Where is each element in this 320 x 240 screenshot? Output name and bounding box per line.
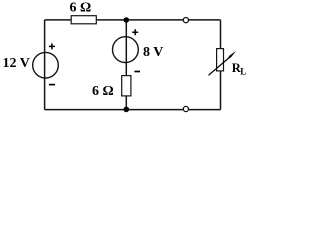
svg-text:6 Ω: 6 Ω [92,84,114,99]
voltage source V1 12V circle [33,52,59,78]
V2 plus polarity mark [132,29,138,35]
wire: middle branch vertical [125,20,127,110]
V1 minus polarity mark [49,84,55,86]
wire: right branch vertical [220,20,222,110]
RL variable arrow head [226,51,236,60]
voltage source V2 8V circle [113,37,139,63]
node junction dot bottom [124,107,130,113]
wire: bottom rail [45,109,221,111]
terminal a open circle top [183,18,188,23]
resistor R2 6ohm middle body [122,76,131,96]
svg-text:L: L [240,66,246,76]
V2 minus polarity mark [134,71,140,73]
resistor R1 6ohm top body [71,16,96,24]
svg-text:12 V: 12 V [3,56,30,71]
wire: left branch vertical [44,20,46,110]
svg-text:6 Ω: 6 Ω [70,0,92,15]
node junction dot top [124,17,130,23]
V1 plus polarity mark [49,43,55,49]
terminal b open circle bottom [183,106,188,111]
svg-text:8 V: 8 V [143,45,163,60]
wire: top rail [45,19,221,21]
RL variable arrow shaft [209,58,229,75]
resistor RL body [217,49,224,71]
